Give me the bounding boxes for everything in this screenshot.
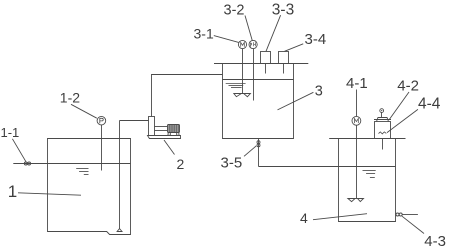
tank 4 body <box>339 139 396 222</box>
label 1 <box>8 182 81 201</box>
label 3-1 <box>194 25 239 42</box>
tank 4 lid <box>329 138 405 140</box>
svg-text:3-3: 3-3 <box>272 1 294 18</box>
valve 1-1 <box>24 162 30 165</box>
pump 2 shaft coupling <box>155 127 168 131</box>
hopper 3-3 on lid <box>261 52 271 74</box>
label 3-2 <box>224 2 253 40</box>
label 4-1 <box>346 75 368 116</box>
svg-text:3-2: 3-2 <box>224 2 245 18</box>
valve 4-3 drain <box>396 213 418 216</box>
label 3-3 <box>266 1 294 51</box>
label 1-2 <box>60 89 97 118</box>
svg-text:4: 4 <box>300 210 308 226</box>
pump 2 motor <box>168 125 180 136</box>
water level symbol tank 1 <box>76 169 88 175</box>
hopper 3-4 on lid <box>279 52 289 74</box>
svg-text:1: 1 <box>8 182 17 201</box>
label 4-3 <box>402 216 446 248</box>
wire pump discharge pipe to tank 3 <box>152 75 223 117</box>
motor M tank 4 <box>352 116 361 125</box>
label 3-4 <box>285 31 327 51</box>
svg-text:1-2: 1-2 <box>60 89 80 105</box>
agitator shaft and propeller tank 4 <box>348 125 364 201</box>
svg-text:1-1: 1-1 <box>1 125 20 140</box>
label 3-5 <box>221 146 257 172</box>
dosing device 4-2 on lid <box>374 109 391 150</box>
svg-text:3-1: 3-1 <box>194 25 214 41</box>
motor M tank 3 <box>238 40 246 48</box>
label 2 <box>164 140 185 172</box>
wire liquid level line tank 3 <box>223 79 294 81</box>
label 4 <box>300 210 367 226</box>
agitator shaft and propeller tank 3 <box>234 49 251 97</box>
pump 2 head <box>149 117 155 136</box>
water level symbol tank 4 <box>363 171 376 178</box>
svg-text:3: 3 <box>315 84 323 100</box>
wire suction pipe with foot strainer <box>117 121 148 232</box>
pH meter probe <box>249 40 257 100</box>
water level symbol tank 3 <box>226 84 246 88</box>
tank 1 outline <box>48 139 131 235</box>
label 4-4 <box>387 96 441 133</box>
tank 3 body <box>223 64 294 139</box>
svg-text:3-5: 3-5 <box>221 155 243 172</box>
wire inlet pipe / liquid level line tank 1 <box>13 163 130 165</box>
label 4-2 <box>389 77 419 119</box>
svg-text:3-4: 3-4 <box>305 31 327 48</box>
pressure gauge 1-2 <box>97 116 106 170</box>
valve 3-5 and outlet pipe <box>257 139 260 167</box>
label 1-1 <box>1 125 27 162</box>
svg-text:4-4: 4-4 <box>418 96 441 113</box>
svg-text:4-3: 4-3 <box>424 233 446 248</box>
svg-text:4-2: 4-2 <box>397 77 419 94</box>
svg-text:2: 2 <box>177 156 185 172</box>
wire transfer pipe to tank 4 / liquid level tank 4 <box>259 166 396 168</box>
tank 3 lid <box>214 63 308 65</box>
pump 2 baseplate <box>148 136 181 139</box>
label 3 <box>278 84 323 110</box>
